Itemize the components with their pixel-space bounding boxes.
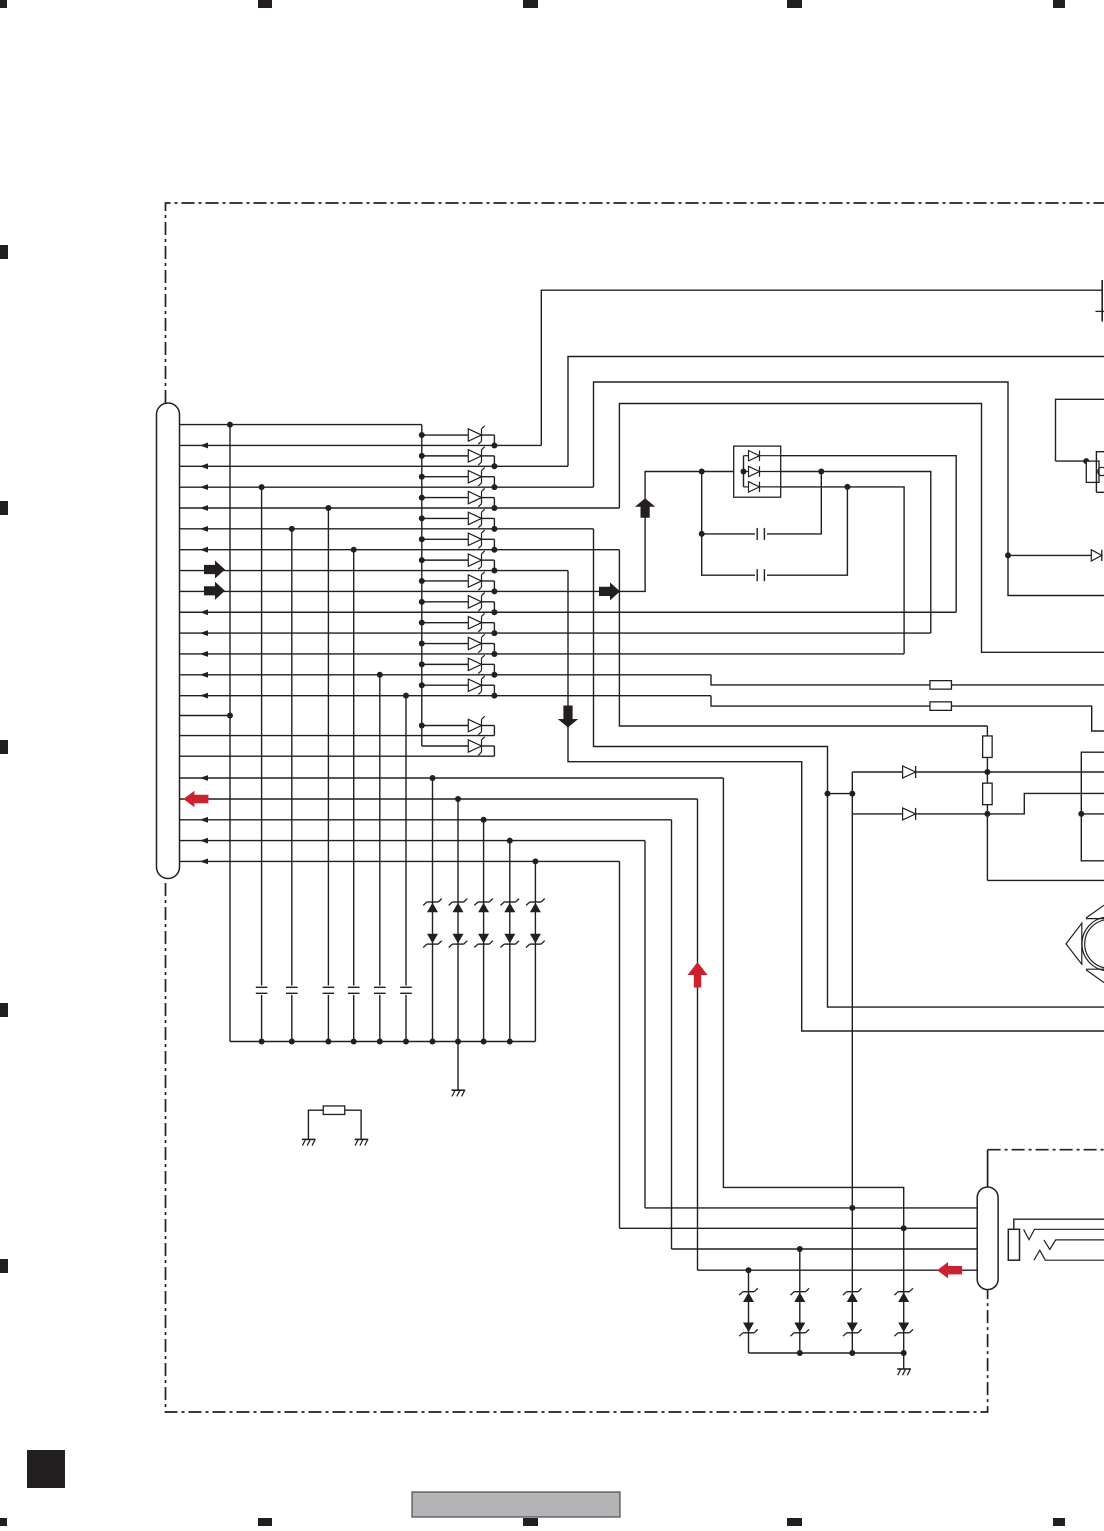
registration marks top (0, 0, 7, 8)
dash-dot boundary frame (166, 203, 1104, 403)
diode array element y=486.9 (744, 486, 749, 488)
junction dots diode box node (699, 469, 705, 475)
zener pair on vertical x=458.0 (452, 901, 463, 903)
zener pair on vertical x=432.5 (427, 901, 438, 903)
diode column D4 (422, 497, 469, 499)
wire row 5 (180, 507, 620, 509)
arrowhead row 6 (200, 526, 208, 532)
zener pair bottom x=748.5 (743, 1291, 754, 1293)
junction dot diode array input (741, 469, 747, 475)
junction dot IC box (1083, 458, 1089, 464)
capacitor on vertical x=328.4 (326, 986, 330, 995)
wire link between node and anode vertical (828, 793, 853, 795)
zener pair bottom x=799.8 (794, 1291, 805, 1293)
wire row 10 (180, 611, 957, 613)
wire row 8 (180, 570, 569, 572)
arrowhead row 18 (200, 775, 208, 781)
wire branch to diode D at right edge (1008, 554, 1091, 556)
wire cap ground bus (230, 1041, 535, 1043)
connector CN2 body (977, 1187, 998, 1290)
junction dots on cap ground bus (259, 1039, 265, 1045)
wire zener ground bus (749, 1352, 904, 1354)
ground (left leg) (302, 1138, 316, 1140)
wire row13 jog to resistor row (711, 675, 1104, 685)
arrowhead row 7 (200, 547, 208, 553)
wire CN2 row 2 (620, 1227, 978, 1229)
wire diode D2 row (852, 793, 1104, 814)
capacitor on vertical x=353.7 (352, 986, 356, 995)
diode column D5 (422, 517, 469, 519)
ground (cap bus) (452, 1089, 466, 1091)
off-page arrow up (to diode box) (635, 498, 655, 518)
jack spring contact 2 (1044, 1240, 1104, 1250)
diode D1 (903, 766, 916, 778)
wire R-gnd left leg (308, 1110, 323, 1139)
wire row 15 stub (180, 715, 231, 717)
wire diode box outputs bottom (781, 487, 904, 654)
wire row 21 (180, 840, 646, 842)
jack tip contact (1008, 1229, 1019, 1260)
arrowhead row 11 (200, 630, 208, 636)
wire diode box outputs middle (781, 472, 931, 634)
wire row 4 (180, 486, 594, 488)
off-page red arrow left row19 (183, 791, 208, 807)
wire diode anodes link vertical (851, 772, 853, 1208)
resistor R5 (clipped) (1086, 461, 1099, 482)
jack spring contact 3 (1034, 1250, 1104, 1260)
wire row 18 (180, 777, 724, 779)
arrowhead row 22 (200, 859, 208, 865)
wire drop v4 row5 (327, 508, 329, 1042)
wire drop v1 rows1+15 (229, 425, 231, 1042)
wire row20 drop (671, 820, 673, 1249)
wire row 11 (180, 632, 931, 634)
diode lower A (422, 725, 469, 727)
arrowhead row 14 (200, 693, 208, 699)
diode array element y=455.7 (744, 455, 749, 457)
wire drop v5 row7 (353, 550, 355, 1042)
diode column D11 (422, 643, 469, 645)
resistor R1 (row13) (930, 681, 952, 690)
wire row9 to off-page arrow and up to diode box (599, 472, 734, 592)
wire row21 drop (644, 841, 646, 1208)
junction dots rows to drop verticals (227, 422, 233, 428)
wire drop v12 row22 (534, 861, 536, 1041)
wire CN2 row 4 (698, 1269, 978, 1271)
wire row22 drop (619, 861, 621, 1228)
page number block (27, 1450, 65, 1488)
diode array box (734, 446, 781, 497)
wire drop v11 row21 (509, 841, 511, 1042)
wire zener column D (903, 1228, 905, 1353)
diode column D12 (422, 663, 469, 665)
resistor R3 vertical (983, 736, 993, 758)
arrowhead row 2 (200, 443, 208, 449)
wire cap C2 row (702, 487, 848, 575)
wire row19 drop (697, 799, 699, 1270)
wire drop v7 row14 (405, 696, 407, 1042)
diode column D1 (422, 434, 469, 436)
wire jack tip to edge (1014, 1219, 1104, 1229)
footer label bar (412, 1492, 620, 1517)
IC box (top right, clipped) (1056, 399, 1104, 461)
arrowhead row 5 (200, 505, 208, 511)
diode column D3 (422, 476, 469, 478)
arrowhead row 10 (200, 609, 208, 615)
wire ground stub (903, 1353, 905, 1369)
wire drop v9 row19 (457, 799, 459, 1042)
wire row7 drop to resistor chain (619, 550, 987, 726)
wire row3 riser to right edge (568, 357, 1104, 467)
arrowhead row 13 (200, 672, 208, 678)
wire row8 drop through off-page down arrow (568, 571, 1104, 1031)
wire row 14 (180, 695, 712, 697)
resistor R-gnd link (323, 1106, 345, 1115)
resistor R4 vertical (983, 783, 993, 805)
wire row 6 (180, 528, 594, 530)
wire drop v10 row20 (483, 820, 485, 1042)
wire row 13 (180, 674, 712, 676)
off-page red arrow up row19 drop (688, 962, 708, 988)
wire row 20 (180, 819, 672, 821)
wire row14 jog to resistor row (711, 696, 1104, 731)
junction dots zener bus (797, 1350, 803, 1356)
zener pair bottom x=852.3 (847, 1291, 858, 1293)
off-page red arrow left CN2 row4 (937, 1262, 962, 1278)
wire drop v8 row18 (432, 778, 434, 1042)
diode column D8 (422, 580, 469, 582)
jack spring contact 1 (1024, 1229, 1104, 1239)
junction dots CN2 rows (849, 1205, 855, 1211)
off-page arrow right row8 (204, 561, 225, 579)
wire drop v2 row4 (261, 487, 263, 1041)
registration marks left (0, 245, 8, 259)
wire diode array input vertical (743, 456, 745, 487)
wire row18 drop (723, 778, 903, 1228)
wire resistor chain vertical (986, 726, 988, 880)
wire row4 riser and drop with diode branch (594, 382, 1104, 596)
ground (zener bus) (897, 1368, 911, 1370)
capacitor on vertical x=261.6 (260, 986, 264, 995)
resistor R2 (row14) (930, 702, 952, 711)
wire chain tail to right edge (987, 879, 1104, 881)
registration marks bottom (0, 1518, 7, 1526)
arrowhead row 20 (200, 817, 208, 823)
wire drop v3 row6 (291, 529, 293, 1042)
wire CN2 row 3 (672, 1248, 978, 1250)
speaker (clipped at edge) (1066, 923, 1082, 964)
off-page arrow down row8 (558, 706, 578, 728)
wire zener column C (851, 1208, 853, 1353)
junction dot box M (1078, 811, 1084, 817)
diode column D7 (422, 559, 469, 561)
wire diode D1 row (852, 771, 1104, 773)
wire row 12 (180, 653, 905, 655)
wire diode anode bus vertical (421, 425, 423, 746)
diode column D6 (422, 538, 469, 540)
wire CN2 row 1 (645, 1207, 977, 1209)
arrowhead row 12 (200, 651, 208, 657)
wire row 1 from CN to diode bus (180, 424, 422, 426)
connector CN1 body (157, 403, 180, 879)
connector tip (top right) (1101, 280, 1103, 322)
diode column D10 (422, 622, 469, 624)
wire row 16 (180, 735, 495, 737)
wire row 22 (180, 860, 620, 862)
diode column D9 (422, 601, 469, 603)
capacitor on vertical x=379.8 (378, 986, 382, 995)
component box M (clipped) (1081, 752, 1104, 861)
arrowhead row 21 (200, 838, 208, 844)
wire row 3 (180, 465, 569, 467)
capacitor C2 (755, 569, 767, 581)
wire drop v6 row13 (379, 675, 381, 1042)
diode D2 (903, 808, 916, 820)
wire R-gnd right leg (345, 1110, 361, 1139)
arrowhead row 4 (200, 484, 208, 490)
wire row 19 (180, 798, 698, 800)
zener pair on vertical x=509.8 (504, 901, 515, 903)
diode column D2 (422, 455, 469, 457)
junction dots resistor chain (984, 769, 990, 775)
wire diode box outputs top (781, 456, 957, 613)
diode array element y=471.5 (744, 471, 749, 473)
zener pair bottom x=903.7 (898, 1291, 909, 1293)
wire row 2 (180, 444, 542, 446)
zener pair on vertical x=483.6 (478, 901, 489, 903)
junction dots diode-pair anode link (825, 791, 831, 797)
diode D5 (right edge) (1091, 550, 1102, 561)
ground (right leg) (355, 1138, 369, 1140)
wire inside box M (1081, 813, 1104, 815)
wire row 9 (180, 590, 600, 592)
wire row 7 (180, 549, 620, 551)
wire row5 riser and drop to right edge (619, 404, 1104, 653)
off-page arrow right row9 (204, 582, 225, 600)
capacitor on vertical x=291.8 (290, 986, 294, 995)
component box (clipped at edge) (1096, 452, 1104, 493)
zener pair on vertical x=535.4 (530, 901, 541, 903)
wire row 17 (180, 755, 495, 757)
wire cap C1 row (702, 472, 822, 534)
wire bus ground stub (457, 1042, 459, 1091)
junction dot row4 drop branch (1005, 552, 1011, 558)
wire zener column A (748, 1270, 750, 1353)
wire row6 drop to diode-pair node (594, 529, 1104, 1007)
diode lower B (422, 745, 469, 747)
diode column D13 (422, 684, 469, 686)
off-page arrow mid-wire row9 (599, 582, 620, 600)
capacitor on vertical x=406.0 (404, 986, 408, 995)
wire row2 riser to top jack (541, 290, 1102, 445)
wire zener column B (799, 1249, 801, 1353)
capacitor C1 (755, 528, 767, 540)
arrowhead row 3 (200, 463, 208, 469)
